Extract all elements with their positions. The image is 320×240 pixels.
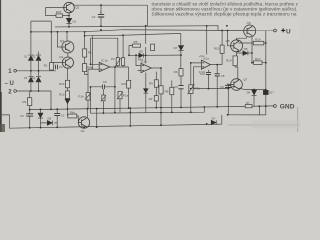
label +U [274, 29, 277, 32]
wire RT1 column [190, 63, 192, 112]
wire P1 column [51, 32, 62, 71]
wire diode columns right [253, 96, 255, 107]
wire Q6 emitter column [251, 37, 253, 63]
resistor column84 lower [83, 64, 87, 72]
wire Q6 to +U [218, 29, 274, 31]
wire column 96.7 [96, 109, 98, 128]
wire Q7 right leg [241, 88, 244, 90]
diode on bottom rail [211, 120, 216, 125]
wire P2 columns [118, 66, 123, 67]
zener D2 [66, 18, 71, 23]
transistor Q3 [64, 2, 75, 13]
resistor R1b [127, 80, 131, 88]
wire IC1b out [151, 67, 161, 69]
wire R5 column [145, 26, 147, 56]
wire rail 35.9 [85, 33, 181, 57]
op-amp IC1c [201, 60, 210, 69]
wire R14 column [235, 52, 238, 79]
wire C3 column [56, 109, 58, 127]
resistor R5 [133, 44, 141, 47]
wire x51 link [50, 21, 52, 32]
wire D7 column [180, 33, 182, 68]
wire D1D2 columns [31, 52, 39, 71]
diode D8 [243, 51, 252, 56]
resistor R6 [179, 69, 183, 76]
resistor RT1 [189, 85, 193, 94]
trimmer P2 [116, 58, 119, 66]
wire Q7 emitter [228, 83, 234, 115]
capacitor C6 [102, 85, 104, 90]
capacitor C9 [225, 85, 231, 87]
paragraph text top right [152, 1, 299, 16]
wire Q6-Q5 link [237, 37, 247, 40]
wire IC1b fb column [145, 73, 147, 113]
paper background [0, 0, 300, 132]
wire R1b column [128, 67, 130, 108]
right scan edge [296, 107, 299, 132]
terminal 2 [14, 90, 17, 93]
transistor Q2 [62, 57, 73, 68]
wire C10 column [208, 70, 210, 89]
wire P1a column [103, 87, 120, 113]
wire left branch [31, 21, 51, 54]
resistor R7 [151, 44, 155, 50]
wire R15 row [46, 15, 70, 17]
resistor R11 [159, 86, 163, 94]
wire zener column [68, 13, 70, 27]
diode low left [65, 99, 70, 104]
diode D1 [28, 55, 33, 60]
wire Q1 legs [84, 109, 88, 129]
wire rail2 [31, 30, 218, 32]
wire right column 267 [265, 31, 267, 115]
wire rail mid2 [91, 107, 205, 113]
wire IC1b feedback column [145, 55, 147, 63]
wire Q5 base column [228, 31, 231, 46]
capacitor C5 [178, 86, 183, 89]
transistor Q5 [231, 40, 243, 52]
wire top-left corner [46, 8, 64, 16]
diode bottom right 2 (zener) [263, 90, 268, 94]
diode vert 40 [38, 113, 43, 118]
wire column 130.3 [129, 108, 131, 126]
wire diode row right [244, 89, 266, 91]
terminal 1 [14, 70, 17, 73]
transistor Q6 [244, 25, 256, 37]
diode D5 [139, 53, 144, 57]
wire op out column [114, 67, 116, 87]
wire R4A row [68, 109, 79, 122]
op-amp IC1b [141, 63, 151, 72]
resistor R2B [65, 91, 69, 99]
junction dots (all wire junctions) [29, 4, 267, 128]
wire C4 column [100, 5, 102, 26]
wire R5 left leg [129, 46, 133, 56]
wire Q4 base [57, 32, 62, 47]
diode on feedback column [144, 89, 149, 93]
wire column 163.7 [160, 68, 162, 125]
capacitor C1 [56, 65, 58, 69]
wire D8 row [237, 52, 252, 54]
wire GND rail [30, 106, 274, 110]
wire R10 column top [221, 31, 223, 46]
wire Q4 collector [66, 32, 68, 41]
wire terminal1 row [16, 70, 56, 72]
wire R9 column [155, 72, 157, 108]
capacitor C3 [54, 113, 60, 115]
resistor R17 [254, 61, 262, 65]
wire Q2 emitter chain column [67, 68, 69, 109]
wire bottom rail [2, 115, 222, 128]
terminal GND [274, 105, 277, 108]
wire Q3 collector top rail [74, 4, 147, 6]
wire Q4-Q2 link [67, 53, 69, 57]
op-amp IC1a [99, 62, 110, 71]
wire R8 column [171, 81, 173, 113]
wire column 91.5 [91, 64, 100, 113]
transistor Q1 [78, 117, 89, 128]
diode D3 [28, 77, 33, 82]
wire step down to rail1 [147, 5, 149, 26]
capacitor C2 [26, 114, 33, 116]
resistor column84 upper [83, 49, 87, 57]
wire R6 C5 column [180, 76, 182, 107]
wire R3 column [29, 91, 31, 128]
wire rail below GND right bracket [228, 106, 266, 115]
diode D7 [178, 46, 183, 51]
wire ic1a plus column [91, 35, 93, 69]
resistor R4B [65, 80, 69, 88]
wire R16 row [243, 42, 266, 44]
wire mid column 206 [206, 26, 208, 55]
trimmer P1b [86, 93, 90, 100]
capacitor C4 [98, 15, 104, 17]
wire IC1b in [136, 55, 141, 70]
wire ic1a minus input [88, 68, 99, 70]
wire R17 row [252, 62, 266, 64]
wire diode column 40 [40, 109, 42, 127]
bottom-right faint scan line [228, 125, 300, 126]
resistor R12 [154, 96, 158, 101]
trimmer P1 [50, 63, 54, 70]
resistor beside P2 [122, 58, 125, 66]
resistor R4A [68, 114, 77, 118]
resistor R3 [28, 98, 32, 106]
wire D5 row [129, 54, 181, 56]
capacitor C10 [206, 72, 211, 74]
wire mid rail 88 [191, 88, 229, 90]
wire terminal2 row [16, 91, 51, 109]
diode D4 [36, 77, 41, 82]
resistor R9 [154, 80, 158, 87]
resistor in gnd rail [245, 105, 252, 108]
wire C6 row [91, 86, 115, 88]
wire rail1 [55, 26, 218, 31]
left scan edge [0, 0, 1, 132]
resistor R10 [220, 45, 224, 53]
wire IC1c output [211, 53, 223, 65]
wire D6 row [41, 122, 58, 124]
diode D6 [47, 121, 52, 126]
resistor R14 [233, 56, 237, 66]
trimmer P1c [102, 95, 105, 101]
resistor R8 [170, 87, 174, 94]
resistor R16 [253, 41, 263, 45]
capacitor C8 [215, 74, 220, 76]
resistor R15 [56, 14, 63, 17]
wire rail 38.2 [91, 38, 118, 57]
wire IC1a out [110, 66, 129, 68]
diode bottom right 1 [252, 90, 257, 95]
wire C8 column [216, 65, 218, 107]
wire P1b column [87, 69, 89, 109]
transistor Q4 [62, 41, 74, 53]
transistor Q7 [228, 79, 242, 91]
wire IC1c inputs [191, 63, 202, 89]
diode D2b [36, 55, 41, 60]
trimmer P1a [118, 92, 122, 99]
wire D3D4 columns [31, 71, 39, 91]
wire column 84 [85, 32, 88, 75]
